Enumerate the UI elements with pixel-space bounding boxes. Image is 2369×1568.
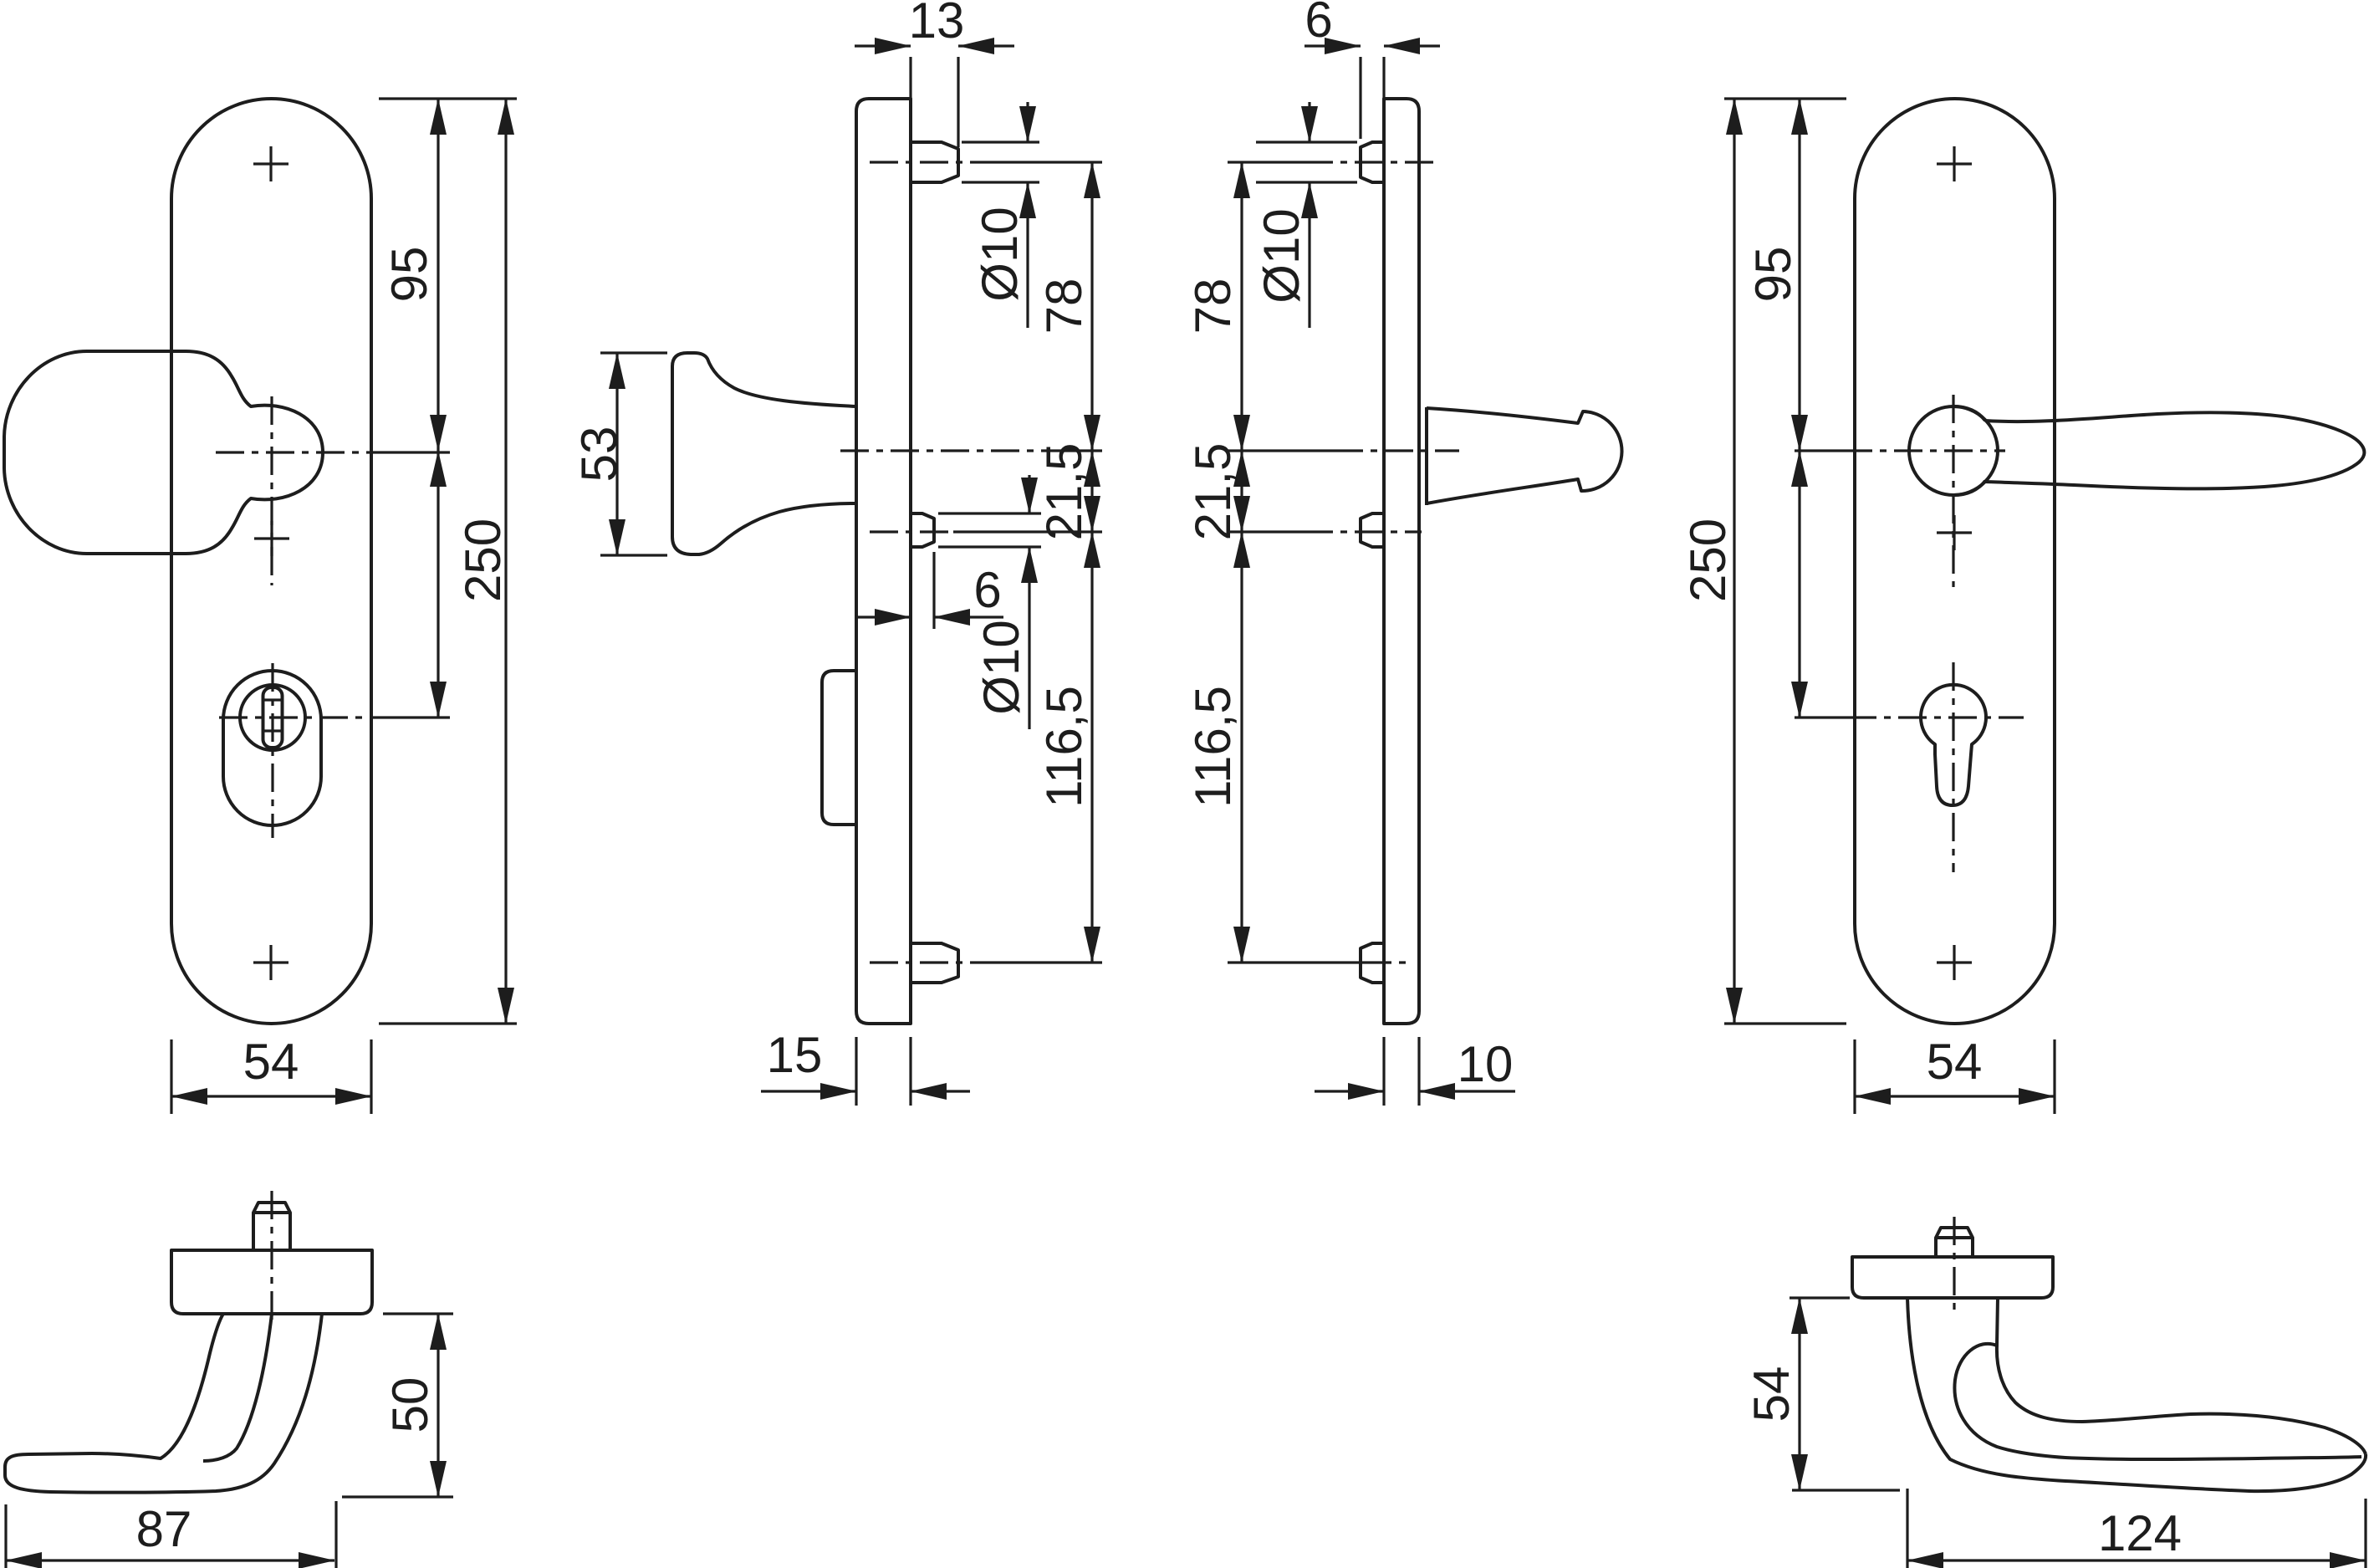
svg-text:95: 95 [1745,247,1801,303]
svg-text:10: 10 [1458,1036,1514,1092]
svg-text:54: 54 [1927,1034,1983,1090]
security cylinder rosette (oval) [223,671,321,825]
top lug centerline extension [987,161,1102,163]
dimension 116,5 [1240,532,1243,963]
extension lines for 50 [342,1314,453,1497]
svg-text:21,5: 21,5 [1036,443,1092,541]
bottom fixing lug [1361,943,1384,983]
dimension 87 [6,1559,334,1561]
extension lines top lug dia [962,142,1039,182]
lever handle (side profile) [1427,408,1622,503]
lever axis centerline [1335,449,1459,452]
extension line middle lug tip [932,552,935,629]
svg-text:53: 53 [571,426,627,483]
extension lines knob height [600,353,667,555]
svg-text:Ø10: Ø10 [973,620,1029,714]
dimension 95 (plate top to lever axis) [1798,99,1800,451]
knob axis extension [1041,449,1102,452]
dimension 78 [1240,162,1243,451]
dimension 13 left arrow [855,44,911,47]
extension lines top lug dia [1256,142,1357,182]
spindle chamfer facet line [1936,1236,1973,1239]
exterior backplate outline (front view, 54x250) [171,99,371,1024]
svg-text:Ø10: Ø10 [1253,208,1310,303]
dimension knob axis to cylinder axis [437,451,439,718]
dimension 6 right arrow [1384,44,1440,47]
lever vertical centerline [1952,395,1954,587]
extension lines plate thickness [1384,1037,1419,1106]
extension lines for 87 [6,1501,336,1568]
middle lug centerline extension [953,530,1102,533]
spindle (square shaft) [1936,1228,1973,1257]
dimension O10 top arrows [1026,102,1029,142]
extension line plate bottom [379,1022,517,1024]
svg-text:15: 15 [767,1027,823,1083]
svg-text:21,5: 21,5 [1185,443,1241,541]
top lug centerline [1304,161,1438,163]
dimension 10 arrows [1315,1090,1384,1092]
svg-text:Ø10: Ø10 [972,207,1028,301]
extension lines middle lug dia [938,513,1041,547]
svg-text:13: 13 [909,0,965,49]
cylinder vertical centerline [271,663,273,838]
cylinder hole (PZ keyhole) [1921,685,1986,805]
middle fixing screw cross [1937,515,1972,550]
svg-text:78: 78 [1185,278,1241,335]
dimension 250 (overall plate height) [504,99,507,1024]
dimension 13 right arrow [958,44,1014,47]
extension lines for 6 [1361,57,1384,139]
lever grip (front view) [1985,412,2364,488]
top fixing lug [1361,142,1384,182]
lever inner fillet becoming grip top edge [1997,1346,2366,1454]
handle rose cap [171,1250,372,1314]
svg-text:95: 95 [381,247,437,303]
cylinder centerline extension [376,716,450,718]
cylinder cover bump (profile) [822,671,856,825]
svg-text:54: 54 [1744,1366,1800,1422]
dimension 54 [1798,1298,1800,1490]
dimension 53 (knob height) [615,353,618,555]
lever handle neck base [1425,407,1428,505]
bottom fixing screw cross [1937,945,1972,980]
knob axis centerline [840,449,1041,452]
extension lines plate thickness [856,1037,911,1106]
svg-text:116,5: 116,5 [1185,686,1241,808]
bottom fixing lug [911,943,958,983]
svg-text:250: 250 [455,518,511,602]
cylinder horizontal centerline [1848,716,2024,718]
lever neck right edge with elbow hook becoming grip crease [1954,1298,2361,1459]
knob (side profile) [672,353,856,554]
dimension 54 (plate width) [171,1095,371,1097]
cylinder horizontal centerline extension [1795,716,1848,718]
bottom fixing screw cross [253,945,288,980]
bottom lug centerline [870,961,974,963]
handle outline (grip curving left) [5,1314,322,1493]
extension lines for 124 [1907,1489,2366,1568]
middle fixing lug [911,513,934,547]
top fixing lug [911,142,958,182]
lever axis extension [1228,449,1335,452]
cylinder keyway slot [263,687,283,748]
extension line plate bottom [1724,1022,1846,1024]
middle lug centerline [870,530,953,533]
top fixing screw cross [253,146,288,181]
svg-text:54: 54 [243,1034,299,1090]
dimension O10 arrows [1308,102,1310,142]
dimension 78 [1090,162,1093,451]
top fixing screw cross [1937,146,1972,181]
svg-text:6: 6 [1304,0,1332,48]
dimension 50 [437,1314,439,1497]
extension lines for 13 [911,57,958,147]
lever outer outline (neck and grip bottom) [1907,1298,2366,1491]
dimension O10 middle arrows [1028,475,1030,513]
svg-text:78: 78 [1036,278,1092,335]
knob vertical centerline [270,396,273,585]
lever neck circle [1909,406,1998,495]
svg-text:87: 87 [136,1501,192,1557]
dimension 15 arrows [761,1090,856,1092]
lever horizontal centerline extension [1795,449,1844,452]
middle lug centerline [1304,530,1422,533]
cylinder core circle [240,685,305,750]
extension line plate top [1724,97,1846,100]
dimension 95 (plate top to knob axis) [437,99,439,451]
dimension 116,5 [1090,532,1093,963]
spindle (square shaft) [253,1203,290,1250]
dimension 6 middle arrows [855,615,911,618]
svg-text:250: 250 [1680,518,1736,602]
middle fixing screw cross [254,521,289,556]
middle lug centerline extension [1228,530,1304,533]
svg-text:116,5: 116,5 [1036,686,1092,808]
middle fixing lug [1361,513,1384,547]
svg-text:6: 6 [973,562,1001,618]
svg-text:50: 50 [382,1377,438,1433]
door knob (front view) [4,351,323,554]
knob horizontal centerline [216,451,375,453]
top lug centerline [870,161,987,163]
dimension 21,5 [1240,451,1243,532]
top lug centerline extension [1228,161,1304,163]
extension line plate top [379,97,517,100]
dimension lever axis to cylinder axis [1798,451,1800,718]
exterior plate profile (side view, 15 thick) [856,99,911,1024]
extension lines plate width [171,1039,371,1114]
knob centerline extension to dimension [375,451,450,453]
neck-grip fillet bottom [1954,481,1985,495]
interior plate profile (side view, 10 thick) [1384,99,1419,1024]
lever horizontal centerline [1844,449,2005,452]
bottom lug centerline extension [974,961,1102,963]
dimension 21,5 [1090,451,1093,532]
cylinder vertical centerline [1952,662,1954,872]
handle inner contour [203,1314,272,1461]
interior backplate outline (front view, 54x250) [1855,99,2055,1024]
handle rose cap [1852,1257,2053,1298]
spindle centerline [270,1191,273,1320]
dimension 124 [1907,1559,2366,1561]
bottom lug centerline extension [1228,961,1363,963]
cylinder horizontal centerline [219,716,376,718]
dimension 54 (plate width) [1855,1095,2055,1097]
dimension 6 left arrow [1304,44,1361,47]
bottom lug centerline [1363,961,1413,963]
extension lines for 54 [1790,1298,1900,1490]
spindle chamfer facet line [253,1211,290,1214]
neck-grip fillet top [1954,406,1985,421]
extension lines plate width [1855,1039,2055,1114]
svg-text:124: 124 [2098,1505,2182,1561]
keyway tick marks [263,700,283,731]
dimension 250 (overall plate height) [1733,99,1735,1024]
spindle centerline [1953,1217,1955,1315]
